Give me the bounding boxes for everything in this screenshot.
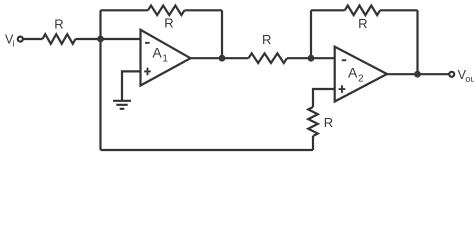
- node N3 (junction dot at A2 inverting input): [308, 55, 315, 62]
- wire: bottom rail from left vertical to below R5: [101, 149, 314, 151]
- svg-text:A: A: [348, 64, 358, 80]
- wire: A2 non-inverting input left and down to resistor R5: [313, 89, 335, 107]
- resistor R1 (input series R): [43, 34, 76, 44]
- input terminal Vi (open circle): [18, 37, 23, 42]
- wire: A2 output to Vo terminal (through node N4): [387, 73, 449, 75]
- svg-text:A: A: [152, 44, 162, 60]
- wire: A1 feedback top rail, right segment: [185, 9, 223, 11]
- A1 minus sign: [145, 42, 150, 44]
- wire: R1 to A1 inverting input (through node N1): [76, 38, 141, 40]
- node N4 (junction dot at A2 output): [414, 71, 421, 78]
- svg-text:1: 1: [162, 54, 168, 65]
- wire: A2 feedback top rail, left segment: [311, 9, 345, 11]
- svg-text:i: i: [13, 39, 15, 49]
- resistor R2 (A1 feedback R): [148, 6, 184, 16]
- op-amp A2 triangle: [335, 47, 387, 102]
- wire: A1 output to resistor R3 (through node N2): [191, 57, 249, 59]
- svg-text:R: R: [164, 16, 173, 31]
- svg-text:R: R: [54, 17, 63, 32]
- svg-text:R: R: [262, 32, 271, 47]
- A2 plus sign: [339, 85, 346, 93]
- A2 minus sign: [342, 59, 347, 61]
- output terminal Vo (open circle): [449, 72, 454, 77]
- svg-text:R: R: [324, 115, 333, 130]
- A1 plus sign: [144, 68, 151, 76]
- wire: A2 feedback right vertical down to output node: [416, 10, 418, 74]
- wire: A2 feedback left vertical from node N3 up to top rail: [310, 10, 312, 58]
- resistor R4 (A2 feedback R): [345, 6, 380, 16]
- node N1 (junction dot at A1 inverting input): [97, 36, 104, 43]
- wire: Vi terminal to resistor R1: [23, 38, 43, 40]
- resistor R5 (vertical R to bottom rail): [308, 107, 318, 136]
- svg-text:ou: ou: [465, 74, 474, 84]
- wire: A1 non-inverting input to ground: [122, 71, 141, 100]
- node N2 (junction dot at A1 output): [219, 55, 226, 62]
- wire: A1 feedback right vertical down to A1 output node: [221, 10, 223, 58]
- svg-text:R: R: [358, 16, 367, 31]
- resistor R3 (interstage series R): [249, 53, 288, 63]
- ground symbol: [113, 101, 131, 109]
- wire: A2 feedback top rail, right segment: [380, 9, 417, 11]
- svg-text:2: 2: [358, 74, 364, 85]
- wire: left vertical from top rail through node N1 down to bottom rail: [99, 10, 101, 150]
- op-amp A1 triangle: [141, 30, 191, 86]
- wire: R3 to A2 inverting input (through node N3): [287, 57, 335, 59]
- wire: R5 down to bottom rail: [312, 136, 314, 150]
- wire: A1 feedback top rail, left segment: [101, 9, 149, 11]
